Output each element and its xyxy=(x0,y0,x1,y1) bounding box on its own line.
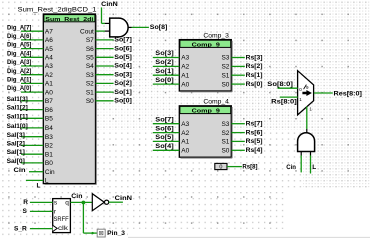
svg-text:q: q xyxy=(65,200,69,207)
svg-text:Sal[2]: Sal[2] xyxy=(7,141,25,148)
svg-text:So[1]: So[1] xyxy=(114,89,132,96)
svg-text:A1: A1 xyxy=(181,72,189,79)
U7 clk edge triangle xyxy=(53,225,58,231)
wire net S to U7 pin r xyxy=(30,210,53,212)
wire U1 pin S1 to net So[1] xyxy=(96,91,114,93)
svg-text:S0: S0 xyxy=(86,98,94,105)
wire net So[8:0] to mux input 0 xyxy=(278,87,298,89)
svg-text:L: L xyxy=(37,183,41,190)
svg-text:S: S xyxy=(23,208,28,215)
wire net So[7] to U4 Comp_4 pin A3 xyxy=(153,123,180,125)
svg-text:S6: S6 xyxy=(86,46,94,53)
svg-text:So[4]: So[4] xyxy=(114,63,132,70)
wire net Sal[3] to U1 pin B3 xyxy=(21,136,43,138)
wire net Sal1[3] to U1 pin B7 xyxy=(21,100,43,102)
wire net So[3] to U3 Comp_3 pin A3 xyxy=(153,57,180,59)
svg-text:Dig_A[1]: Dig_A[1] xyxy=(7,77,31,84)
wire net So[1] to U3 Comp_3 pin A1 xyxy=(153,74,180,76)
svg-text:A6: A6 xyxy=(45,37,53,44)
svg-text:S2: S2 xyxy=(221,64,229,71)
svg-text:So[6]: So[6] xyxy=(114,45,132,52)
U4 Comp_4 title bar xyxy=(180,106,231,113)
svg-text:A4: A4 xyxy=(45,55,53,62)
wire U7 q to inverter U8 / net Cin xyxy=(70,201,92,203)
component U4 Comp_4 body xyxy=(179,106,231,157)
svg-text:So[5]: So[5] xyxy=(114,54,132,61)
svg-text:A2: A2 xyxy=(181,130,189,137)
svg-text:S1: S1 xyxy=(221,72,229,79)
svg-text:A1: A1 xyxy=(181,139,189,146)
constant 0 source xyxy=(215,163,227,169)
svg-text:So[5]: So[5] xyxy=(155,134,173,141)
svg-text:B1: B1 xyxy=(45,151,53,158)
wire net Sal[0] to U1 pin B0 xyxy=(21,162,43,164)
svg-text:Dig_A[0]: Dig_A[0] xyxy=(7,85,31,92)
svg-text:Dig_A[2]: Dig_A[2] xyxy=(7,68,31,75)
svg-text:S1: S1 xyxy=(221,139,229,146)
svg-text:B5: B5 xyxy=(45,116,53,123)
svg-text:So[2]: So[2] xyxy=(155,59,173,66)
wire U4 Comp_4 pin S3 to net Rs[7] xyxy=(231,123,245,125)
wire net Dig_A[0] to U1 pin A0 xyxy=(21,91,43,93)
svg-text:Sal[0]: Sal[0] xyxy=(7,158,25,165)
svg-text:Cout: Cout xyxy=(80,28,94,35)
svg-text:Sal1[2]: Sal1[2] xyxy=(7,105,28,112)
svg-text:Pin_3: Pin_3 xyxy=(107,230,125,237)
svg-text:Cin: Cin xyxy=(71,193,82,200)
svg-text:Dig_A[4]: Dig_A[4] xyxy=(7,50,31,57)
svg-text:Sum_Rest_2digBCD_1: Sum_Rest_2digBCD_1 xyxy=(18,6,97,13)
svg-text:A0: A0 xyxy=(181,81,189,88)
svg-text:CinN: CinN xyxy=(115,195,133,202)
svg-text:Dig_A[5]: Dig_A[5] xyxy=(7,42,31,49)
wire net S_R to U7 pin clk xyxy=(30,228,53,230)
wire net So[2] to U3 Comp_3 pin A2 xyxy=(153,65,180,67)
wire U1 pin S6 to net So[6] xyxy=(96,48,114,50)
svg-text:Comp_9: Comp_9 xyxy=(192,109,221,115)
wire net Sal1[1] to U1 pin B5 xyxy=(21,117,43,119)
svg-text:S3: S3 xyxy=(221,55,229,62)
svg-text:S1: S1 xyxy=(86,89,94,96)
svg-text:So[0]: So[0] xyxy=(114,98,132,105)
svg-text:Sal1[0]: Sal1[0] xyxy=(7,123,28,130)
svg-text:Comp_4: Comp_4 xyxy=(203,99,229,106)
svg-text:A3: A3 xyxy=(45,63,53,70)
svg-text:Sal1[3]: Sal1[3] xyxy=(7,96,28,103)
component U1 body xyxy=(43,14,95,184)
wire U3 Comp_3 pin S0 to net Rs[0] xyxy=(231,83,245,85)
wire net R to U7 pin s xyxy=(30,201,53,203)
svg-text:Sal[1]: Sal[1] xyxy=(7,149,25,156)
svg-text:S0: S0 xyxy=(221,81,229,88)
svg-text:Sal[3]: Sal[3] xyxy=(7,132,25,139)
wire U3 Comp_3 pin S1 to net Rs[1] xyxy=(231,74,245,76)
wire U4 Comp_4 pin S0 to net Rs[4] xyxy=(231,149,245,151)
svg-text:B7: B7 xyxy=(45,98,53,105)
mux direction arrow xyxy=(302,90,312,96)
svg-text:So[1]: So[1] xyxy=(155,68,173,75)
svg-text:Sum_Rest_2di: Sum_Rest_2di xyxy=(45,17,93,23)
svg-text:S0: S0 xyxy=(221,148,229,155)
wire AND U6 output to mux select xyxy=(306,107,308,130)
wire mux output to net Res[8:0] xyxy=(314,92,333,94)
svg-text:Rs[8:0]: Rs[8:0] xyxy=(271,98,297,105)
svg-text:Rs[8]: Rs[8] xyxy=(242,164,257,171)
svg-text:CinN: CinN xyxy=(101,1,118,8)
wire net Dig_A[4] to U1 pin A4 xyxy=(21,56,43,58)
component U1 title bar xyxy=(44,15,95,22)
svg-text:Dig_A[6]: Dig_A[6] xyxy=(7,33,31,40)
wire net Dig_A[3] to U1 pin A3 xyxy=(21,65,43,67)
wire U4 Comp_4 pin S1 to net Rs[5] xyxy=(231,140,245,142)
wire AND U2 output to net So[8] xyxy=(132,26,149,28)
wire junction Cin down to Pin_3 xyxy=(82,203,84,234)
junction node Cin xyxy=(82,201,86,205)
wire U3 Comp_3 pin S3 to net Rs[3] xyxy=(231,57,245,59)
wire U1 pin S7 to net So[7] xyxy=(96,39,114,41)
svg-text:Rs[2]: Rs[2] xyxy=(246,63,263,70)
wire net Sal1[2] to U1 pin B6 xyxy=(21,109,43,111)
svg-text:B2: B2 xyxy=(45,143,53,150)
svg-text:Rs[5]: Rs[5] xyxy=(246,138,263,145)
svg-text:Dig_A[3]: Dig_A[3] xyxy=(7,59,31,66)
AND gate U2 xyxy=(105,22,110,24)
wire net Dig_A[7] to U1 pin A7 xyxy=(21,30,43,32)
wire U1 pin S4 to net So[4] xyxy=(96,65,114,67)
svg-text:A3: A3 xyxy=(181,55,189,62)
wire U1 pin S3 to net So[3] xyxy=(96,74,114,76)
svg-text:Rs[3]: Rs[3] xyxy=(246,54,263,61)
wire net Rs[8:0] to mux input 1 xyxy=(280,96,298,98)
wire U4 Comp_4 pin S2 to net Rs[6] xyxy=(231,132,245,134)
svg-text:S2: S2 xyxy=(221,130,229,137)
svg-text:B3: B3 xyxy=(45,134,53,141)
svg-text:So[3]: So[3] xyxy=(155,50,173,57)
svg-text:S7: S7 xyxy=(86,37,94,44)
svg-text:SRFF: SRFF xyxy=(54,216,69,223)
svg-text:L: L xyxy=(312,164,316,171)
svg-text:Cin: Cin xyxy=(286,164,296,171)
wire net Sal1[0] to U1 pin B4 xyxy=(21,127,43,129)
wire net So[6] to U4 Comp_4 pin A2 xyxy=(153,132,180,134)
wire U1 pin S2 to net So[2] xyxy=(96,82,114,84)
svg-text:So[8:0]: So[8:0] xyxy=(267,81,293,88)
svg-text:R: R xyxy=(23,199,28,206)
svg-text:Res[8:0]: Res[8:0] xyxy=(334,90,362,97)
component U3 Comp_3 body xyxy=(179,40,231,91)
svg-text:S2: S2 xyxy=(86,81,94,88)
svg-text:Rs[4]: Rs[4] xyxy=(246,147,263,154)
svg-text:clk: clk xyxy=(58,225,69,232)
svg-text:Rs[0]: Rs[0] xyxy=(246,81,263,88)
svg-text:S_R: S_R xyxy=(14,226,27,233)
wire constant 0 to net Rs[8] xyxy=(227,166,242,168)
wire net CinN into AND U2 top input xyxy=(101,7,103,23)
svg-text:S3: S3 xyxy=(86,72,94,79)
wire net So[5] to U4 Comp_4 pin A1 xyxy=(153,140,180,142)
svg-text:B6: B6 xyxy=(45,107,53,114)
wire net Sal[2] to U1 pin B2 xyxy=(21,144,43,146)
wire U1 pin S0 to net So[0] xyxy=(96,100,114,102)
U3 Comp_3 title bar xyxy=(180,40,231,47)
svg-text:Comp_9: Comp_9 xyxy=(192,43,221,49)
wire net Dig_A[6] to U1 pin A6 xyxy=(21,39,43,41)
wire inverter U8 output to net CinN xyxy=(109,201,123,203)
svg-text:So[4]: So[4] xyxy=(155,143,173,150)
svg-text:A3: A3 xyxy=(181,121,189,128)
wire net Cin to U1 pin Cin xyxy=(29,171,43,173)
svg-text:B0: B0 xyxy=(45,160,53,167)
svg-text:A2: A2 xyxy=(181,64,189,71)
svg-text:So[0]: So[0] xyxy=(155,77,173,84)
svg-text:A1: A1 xyxy=(45,81,53,88)
wire U1 Cout to AND U2 bottom input xyxy=(96,30,106,32)
svg-text:Comp_3: Comp_3 xyxy=(203,32,229,39)
svg-text:Rs[6]: Rs[6] xyxy=(246,129,263,136)
wire net Dig_A[5] to U1 pin A5 xyxy=(21,48,43,50)
svg-text:S5: S5 xyxy=(86,55,94,62)
svg-text:So[3]: So[3] xyxy=(114,71,132,78)
svg-text:Dig_A[7]: Dig_A[7] xyxy=(7,24,31,31)
svg-text:S4: S4 xyxy=(86,63,94,70)
svg-text:So[2]: So[2] xyxy=(114,80,132,87)
wire net Sal[1] to U1 pin B1 xyxy=(21,153,43,155)
svg-text:B4: B4 xyxy=(45,125,53,132)
AND gate U6 (vertical) xyxy=(298,133,315,152)
svg-text:0: 0 xyxy=(219,165,222,171)
wire net So[4] to U4 Comp_4 pin A0 xyxy=(153,149,180,151)
pin marker Pin_3 xyxy=(97,229,105,237)
wire U1 pin S5 to net So[5] xyxy=(96,56,114,58)
svg-text:S3: S3 xyxy=(221,121,229,128)
mux bus width mark /9 xyxy=(304,85,307,90)
svg-text:So[7]: So[7] xyxy=(155,116,173,123)
svg-text:A2: A2 xyxy=(45,72,53,79)
svg-text:Rs[1]: Rs[1] xyxy=(246,72,263,79)
svg-text:A7: A7 xyxy=(45,28,53,35)
svg-text:So[6]: So[6] xyxy=(155,125,173,132)
svg-text:L: L xyxy=(45,178,49,185)
svg-text:Sal1[1]: Sal1[1] xyxy=(7,113,28,120)
wire net L to U1 pin L xyxy=(26,179,43,181)
svg-text:A5: A5 xyxy=(45,46,53,53)
svg-text:Rs[7]: Rs[7] xyxy=(246,121,263,128)
wire net So[0] to U3 Comp_3 pin A0 xyxy=(153,83,180,85)
svg-text:A0: A0 xyxy=(45,89,53,96)
inverter U8 xyxy=(92,194,104,211)
wire net Dig_A[2] to U1 pin A2 xyxy=(21,74,43,76)
flip-flop U7 SRFF xyxy=(53,199,71,233)
wire net Dig_A[1] to U1 pin A1 xyxy=(21,82,43,84)
wire U3 Comp_3 pin S2 to net Rs[2] xyxy=(231,65,245,67)
mux U5 2:1 bus mux xyxy=(298,71,314,115)
svg-text:Cin: Cin xyxy=(14,167,26,174)
svg-text:So[8]: So[8] xyxy=(150,24,168,31)
svg-text:Cin: Cin xyxy=(45,169,55,176)
svg-text:A0: A0 xyxy=(181,148,189,155)
